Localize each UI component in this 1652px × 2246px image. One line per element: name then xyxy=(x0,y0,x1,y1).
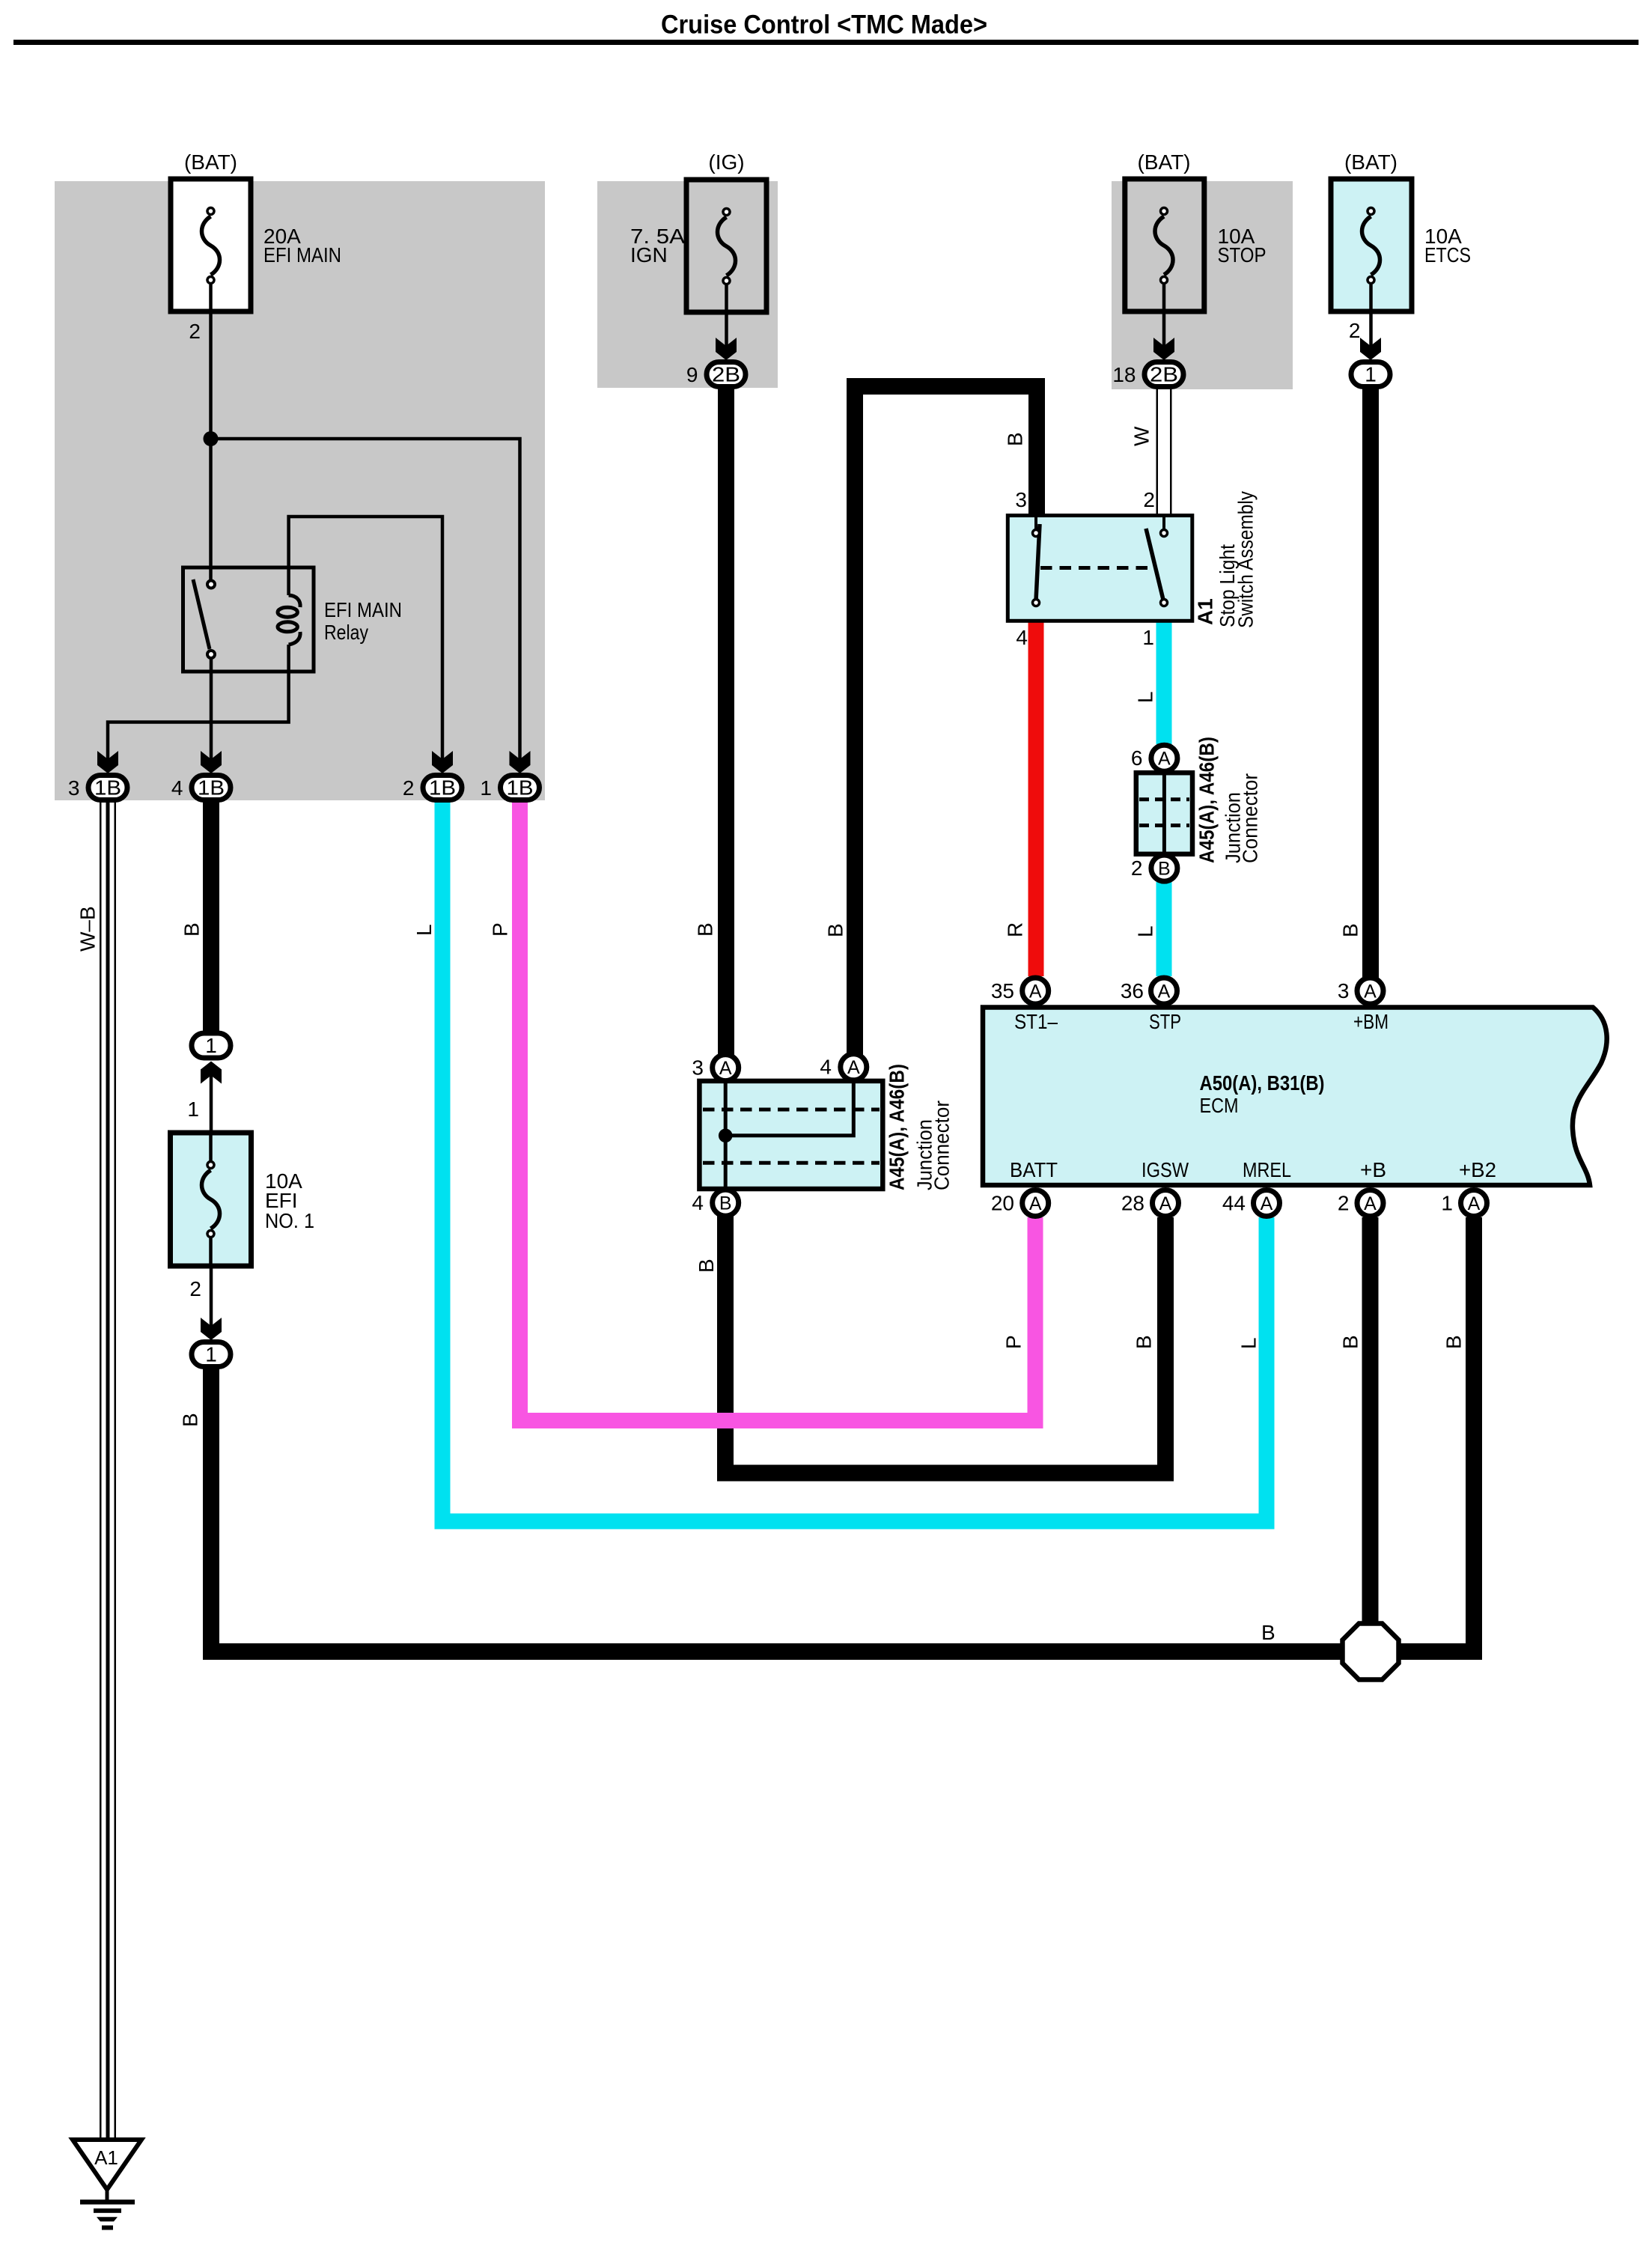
svg-text:2: 2 xyxy=(189,1277,201,1300)
connector 3A on junction xyxy=(713,1055,739,1081)
svg-text:1B: 1B xyxy=(429,776,456,800)
svg-text:A: A xyxy=(1158,981,1171,1002)
wire: relay coil bottom down left to connector 3 1B (W-B feed) xyxy=(108,672,289,762)
svg-text:(BAT): (BAT) xyxy=(184,150,237,174)
wire W: STOP 2B to stop light switch pin 2 (double line) xyxy=(1157,388,1171,517)
svg-text:1: 1 xyxy=(1142,626,1154,649)
value label 20A EFI MAIN xyxy=(263,225,341,267)
svg-text:EFI MAIN: EFI MAIN xyxy=(263,243,341,267)
svg-text:B: B xyxy=(1339,923,1362,937)
svg-text:1: 1 xyxy=(205,1034,217,1057)
svg-text:2B: 2B xyxy=(712,363,740,386)
svg-text:1: 1 xyxy=(1441,1192,1453,1215)
svg-text:B: B xyxy=(719,1193,732,1214)
wire B: IG 2B to junction connector 3A xyxy=(718,383,734,1056)
wire L: ECM MREL 44A down left and up to connector 2 1B xyxy=(442,800,1267,1521)
svg-text:3: 3 xyxy=(692,1056,704,1080)
svg-text:2: 2 xyxy=(1143,488,1155,511)
connector 9 2B with arrow xyxy=(707,338,746,387)
connector 6A on junction xyxy=(1151,745,1177,771)
svg-text:BATT: BATT xyxy=(1010,1158,1058,1181)
wire: EFI MAIN fuse pin2 down through junction dot to relay switch xyxy=(209,282,213,581)
wire L: stop light switch pin1 to junction 6A xyxy=(1156,620,1172,744)
svg-text:Connector: Connector xyxy=(930,1101,954,1190)
svg-text:A45(A), A46(B): A45(A), A46(B) xyxy=(886,1064,909,1190)
connector 36A STP xyxy=(1151,978,1177,1004)
svg-text:4: 4 xyxy=(171,776,183,800)
connector 4B on junction xyxy=(713,1190,739,1216)
svg-text:1B: 1B xyxy=(507,776,534,800)
svg-text:28: 28 xyxy=(1121,1192,1144,1215)
svg-text:B: B xyxy=(1339,1335,1362,1349)
wire B: ETCS connector 1 down to ECM +BM 3A xyxy=(1362,383,1379,979)
relay EFI MAIN Relay xyxy=(183,566,314,673)
wire: dot to right then down to connector 1 1B (P feed) xyxy=(211,439,520,762)
svg-text:A: A xyxy=(1029,1193,1042,1214)
svg-text:L: L xyxy=(1134,691,1157,703)
node: junction dot on EFI MAIN feed xyxy=(204,431,219,446)
svg-text:Cruise Control <TMC Made>: Cruise Control <TMC Made> xyxy=(661,10,987,40)
label A45(A), A46(B) Junction Connector (right) xyxy=(1195,737,1261,863)
wire B: connector 4 1B down to connector 1 above EFI NO.1 xyxy=(203,800,219,1033)
gray box: IG fuse block xyxy=(597,181,778,388)
wire B: ECM +B 2A down to octagon xyxy=(1362,1217,1379,1625)
connector 44A MREL xyxy=(1254,1190,1280,1217)
svg-text:2: 2 xyxy=(403,776,415,800)
connector 2A +B xyxy=(1357,1190,1383,1217)
svg-text:4: 4 xyxy=(692,1191,704,1214)
svg-text:1B: 1B xyxy=(198,776,225,800)
wire P: ECM BATT 20A down left and up to connector 1 1B xyxy=(520,800,1036,1421)
svg-text:3: 3 xyxy=(1338,979,1350,1002)
svg-text:A: A xyxy=(1261,1193,1273,1214)
connector 1 above EFI NO.1 with up arrow xyxy=(192,1033,231,1084)
svg-text:B: B xyxy=(824,923,847,937)
value label 10A ETCS xyxy=(1424,225,1471,267)
svg-text:9: 9 xyxy=(686,363,698,386)
svg-text:Connector: Connector xyxy=(1239,773,1262,863)
connector 28A IGSW xyxy=(1153,1190,1179,1217)
svg-text:A: A xyxy=(1364,1193,1377,1214)
value label 10A STOP xyxy=(1218,225,1267,267)
svg-text:IGSW: IGSW xyxy=(1142,1158,1189,1181)
svg-text:+BM: +BM xyxy=(1353,1010,1389,1033)
svg-text:L: L xyxy=(1134,925,1157,937)
svg-text:B: B xyxy=(1261,1621,1275,1644)
svg-text:1: 1 xyxy=(187,1098,199,1121)
svg-text:A45(A), A46(B): A45(A), A46(B) xyxy=(1195,737,1218,863)
svg-text:L: L xyxy=(1237,1337,1261,1349)
svg-text:B: B xyxy=(180,922,204,937)
svg-text:A1: A1 xyxy=(1194,598,1217,625)
ECM A50(A) B31(B) xyxy=(983,1008,1607,1186)
svg-text:EFI MAIN: EFI MAIN xyxy=(324,598,402,621)
value label 7.5A IGN xyxy=(630,225,685,267)
svg-text:P: P xyxy=(489,922,512,937)
connector 1 below EFI NO.1 with arrow xyxy=(192,1318,231,1367)
svg-text:2: 2 xyxy=(1349,319,1361,342)
svg-text:W–B: W–B xyxy=(76,906,100,952)
wire: EFI NO.1 fuse pin1 upper lead xyxy=(210,1072,213,1135)
svg-text:A: A xyxy=(847,1057,860,1078)
wire B: junction 4B down right and up to ECM IGSW 28A xyxy=(725,1213,1165,1473)
svg-text:35: 35 xyxy=(991,979,1014,1002)
svg-text:1: 1 xyxy=(205,1343,217,1366)
wire B: ECM +B2 1A down and left to octagon xyxy=(1397,1217,1474,1652)
label A50(A), B31(B) ECM xyxy=(1200,1071,1325,1117)
svg-text:R: R xyxy=(1004,922,1027,937)
svg-text:2: 2 xyxy=(1131,856,1143,880)
svg-text:STP: STP xyxy=(1149,1010,1181,1033)
svg-text:2: 2 xyxy=(1338,1192,1350,1215)
svg-text:B: B xyxy=(1133,1335,1156,1349)
svg-text:20: 20 xyxy=(991,1192,1014,1215)
fuse 20A EFI MAIN xyxy=(171,179,251,313)
wire B: connector 1 below EFI NO.1 down and right to ground splice octagon xyxy=(211,1366,1344,1652)
wire: relay switch bottom to connector 4 1B xyxy=(210,658,213,762)
svg-text:ST1–: ST1– xyxy=(1014,1010,1058,1033)
connector 3 1B with arrow xyxy=(88,751,127,800)
junction connector A45(A) A46(B) small xyxy=(1136,773,1192,854)
wire: IG fuse pin down to connector 9 2B xyxy=(725,284,728,350)
connector 1A +B2 xyxy=(1461,1190,1487,1217)
svg-text:2B: 2B xyxy=(1150,363,1178,386)
connector 18 2B with arrow xyxy=(1144,338,1183,387)
svg-text:3: 3 xyxy=(68,776,80,800)
svg-text:4: 4 xyxy=(1016,626,1028,649)
connector 20A BATT xyxy=(1022,1190,1049,1217)
fuse 10A EFI NO.1 xyxy=(171,1133,252,1267)
svg-text:B: B xyxy=(1442,1335,1466,1349)
wire: relay coil top up over to connector 2 1B (L feed) xyxy=(289,517,442,762)
connector 2 1B with arrow xyxy=(423,751,462,800)
wire: EFI NO.1 fuse pin2 lower lead xyxy=(210,1266,213,1330)
gray box: STOP fuse block xyxy=(1112,181,1293,389)
svg-text:A: A xyxy=(1364,981,1377,1002)
svg-text:MREL: MREL xyxy=(1243,1158,1291,1181)
svg-text:4: 4 xyxy=(820,1056,832,1079)
connector 4A on junction xyxy=(841,1054,867,1080)
svg-text:44: 44 xyxy=(1222,1192,1246,1215)
wire L: junction 2B to ECM STP 36A xyxy=(1156,882,1172,976)
fuse 10A ETCS xyxy=(1331,179,1412,313)
svg-text:6: 6 xyxy=(1131,746,1143,770)
svg-text:1B: 1B xyxy=(94,776,121,800)
fuse 10A STOP xyxy=(1125,179,1204,313)
ground A1 xyxy=(73,2140,141,2230)
connector 1 1B with arrow xyxy=(501,751,540,800)
svg-text:A: A xyxy=(1029,981,1042,1002)
connector 1 at ETCS with arrow xyxy=(1351,338,1390,387)
svg-text:NO. 1: NO. 1 xyxy=(265,1209,314,1232)
svg-text:A: A xyxy=(1158,749,1171,770)
value label 10A EFI NO.1 xyxy=(265,1169,314,1232)
connector 35A ST1- xyxy=(1022,978,1049,1004)
svg-text:A: A xyxy=(719,1058,732,1079)
svg-text:(BAT): (BAT) xyxy=(1137,150,1190,174)
svg-text:ETCS: ETCS xyxy=(1424,243,1471,267)
connector 3A +BM xyxy=(1357,978,1383,1004)
wire R: stop light switch pin4 to ECM ST1- 35A xyxy=(1028,620,1044,976)
svg-text:A1: A1 xyxy=(94,2146,118,2169)
wire: STOP fuse pin down to connector 18 2B xyxy=(1162,284,1166,350)
svg-text:A50(A), B31(B): A50(A), B31(B) xyxy=(1200,1071,1325,1095)
svg-text:B: B xyxy=(1158,858,1171,879)
wire: ETCS fuse pin2 down to connector 1 xyxy=(1369,282,1373,350)
svg-text:A: A xyxy=(1468,1193,1481,1214)
svg-text:(BAT): (BAT) xyxy=(1344,150,1398,174)
fuse 7.5A IGN xyxy=(686,180,766,314)
label A1 Stop Light Switch Assembly xyxy=(1194,491,1258,628)
wire W-B: connector 3 1B down to ground A1 (striped) xyxy=(100,800,115,2140)
wire B: junction 4A up over and down to stop light switch pin 3 xyxy=(855,386,1037,1057)
title rule xyxy=(13,40,1639,45)
svg-text:1: 1 xyxy=(480,776,492,800)
svg-text:ECM: ECM xyxy=(1200,1094,1239,1117)
svg-text:(IG): (IG) xyxy=(708,150,744,174)
svg-text:B: B xyxy=(179,1413,202,1427)
svg-text:STOP: STOP xyxy=(1218,243,1267,267)
stop light switch assembly A1 xyxy=(1008,516,1192,621)
svg-text:+B: +B xyxy=(1360,1158,1386,1181)
svg-text:+B2: +B2 xyxy=(1459,1158,1496,1181)
svg-text:L: L xyxy=(412,924,436,936)
svg-text:1: 1 xyxy=(1365,363,1377,386)
junction connector A45(A) A46(B) main xyxy=(699,1081,883,1189)
svg-text:Relay: Relay xyxy=(324,621,368,644)
node: junction dot inside connector xyxy=(719,1129,733,1143)
svg-text:B: B xyxy=(1004,432,1027,446)
gray box: engine room relay block (left) xyxy=(55,181,545,800)
splice octagon xyxy=(1343,1624,1399,1680)
svg-text:B: B xyxy=(695,1259,718,1273)
svg-text:36: 36 xyxy=(1121,979,1144,1002)
svg-text:W: W xyxy=(1130,426,1153,446)
svg-text:B: B xyxy=(694,922,717,937)
svg-text:2: 2 xyxy=(189,320,201,343)
label A45(A), A46(B) Junction Connector (main) xyxy=(886,1064,954,1190)
connector 2B on junction xyxy=(1151,855,1177,881)
svg-text:IGN: IGN xyxy=(630,243,668,267)
label EFI MAIN Relay xyxy=(324,598,402,644)
svg-text:Switch Assembly: Switch Assembly xyxy=(1234,491,1258,628)
svg-text:P: P xyxy=(1002,1335,1025,1349)
svg-text:18: 18 xyxy=(1112,363,1136,386)
svg-text:3: 3 xyxy=(1015,488,1027,511)
svg-text:A: A xyxy=(1159,1193,1172,1214)
connector 4 1B with arrow xyxy=(192,751,231,800)
